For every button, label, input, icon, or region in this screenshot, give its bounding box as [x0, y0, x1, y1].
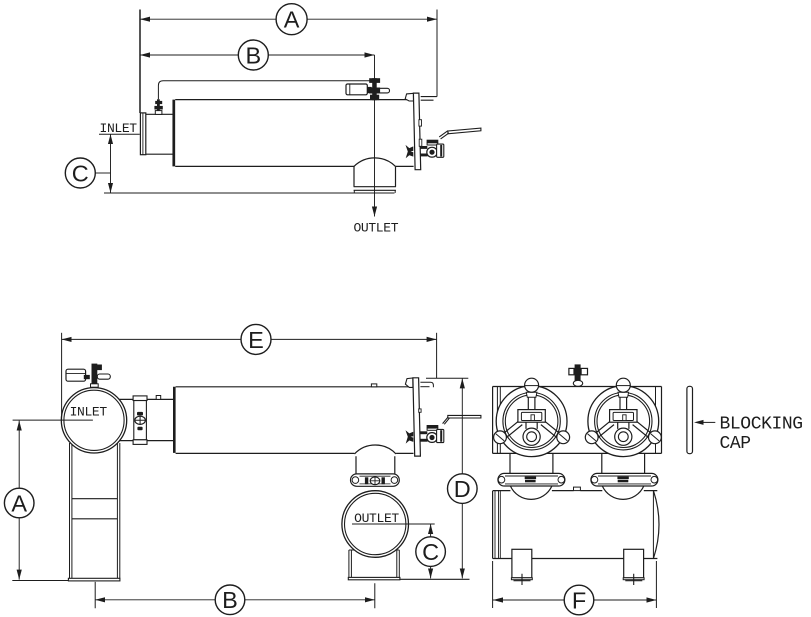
svg-text:A: A	[284, 7, 300, 33]
svg-text:CAP: CAP	[720, 434, 751, 454]
svg-text:D: D	[454, 476, 471, 502]
svg-text:BLOCKING: BLOCKING	[720, 414, 803, 434]
svg-text:OUTLET: OUTLET	[354, 511, 399, 526]
svg-text:A: A	[11, 490, 27, 516]
svg-text:C: C	[422, 539, 439, 565]
svg-text:F: F	[572, 587, 586, 613]
svg-text:B: B	[222, 587, 238, 613]
svg-text:INLET: INLET	[100, 121, 138, 136]
svg-text:C: C	[72, 160, 89, 186]
svg-text:E: E	[248, 327, 264, 353]
svg-text:B: B	[245, 42, 261, 68]
svg-text:INLET: INLET	[70, 405, 108, 420]
svg-text:OUTLET: OUTLET	[353, 221, 398, 236]
